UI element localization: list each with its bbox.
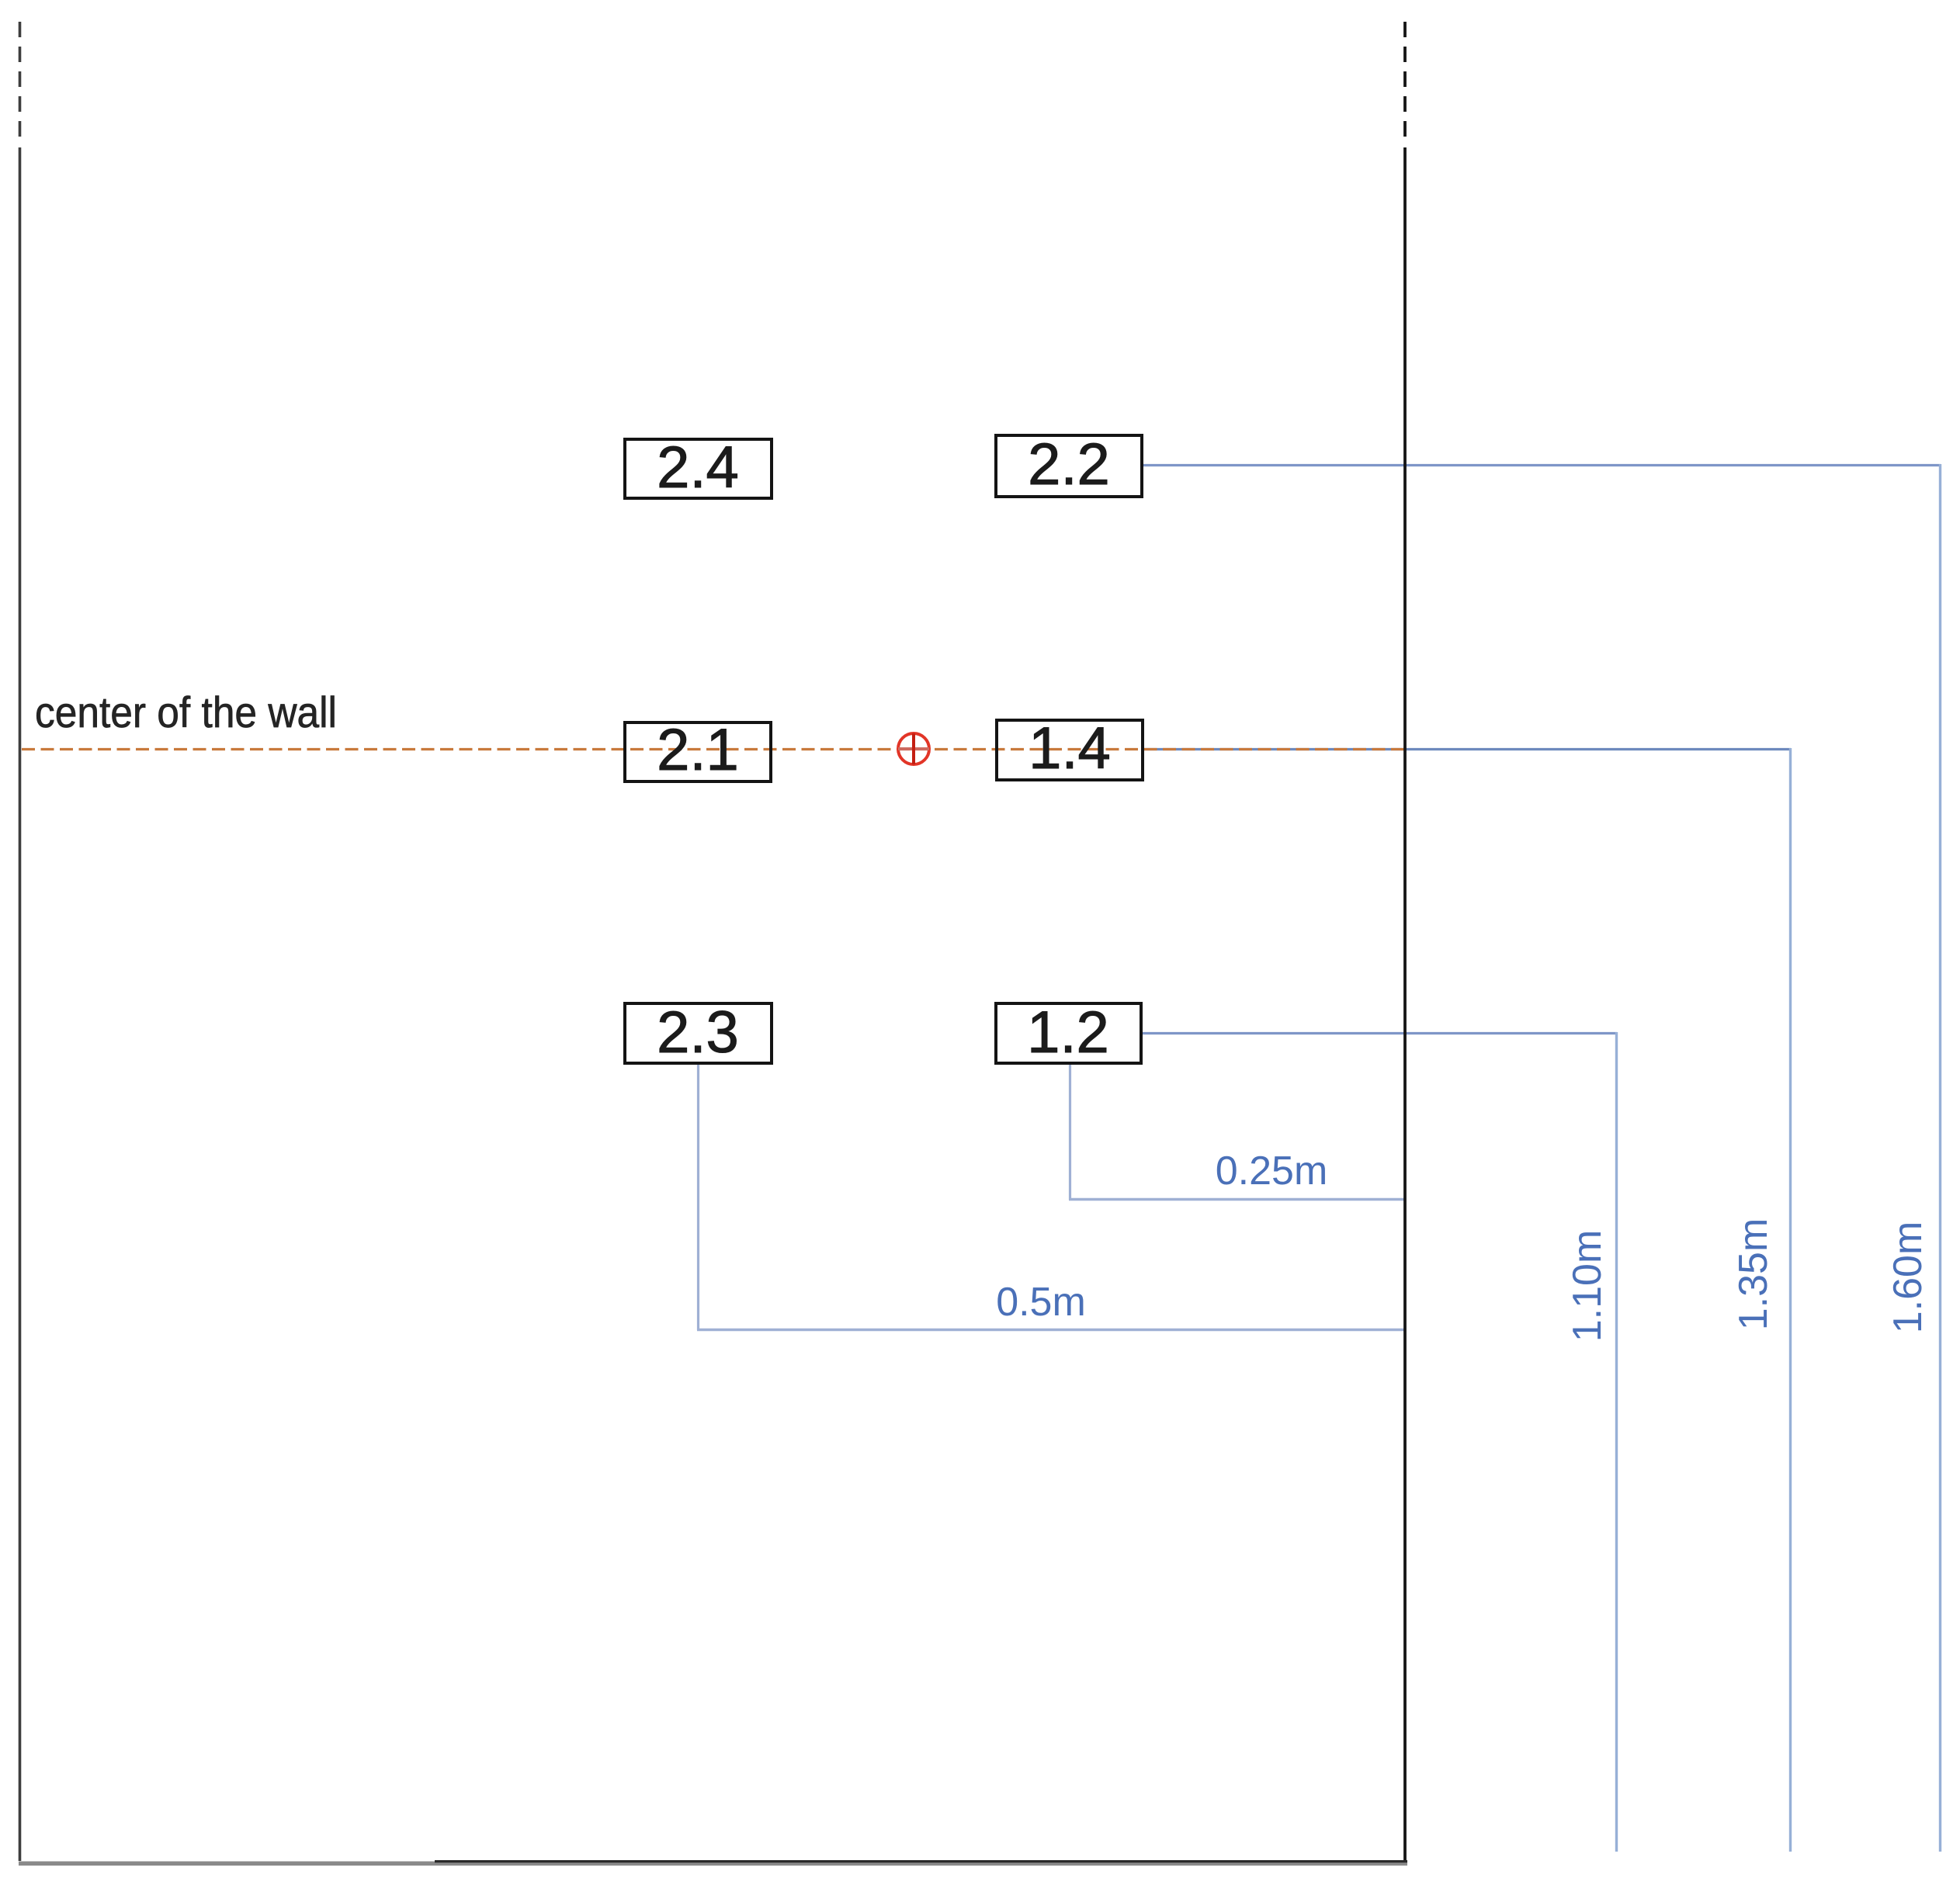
wire dimension line from 1.2 going right bbox=[1141, 1032, 1617, 1034]
node box 2.2 bbox=[996, 431, 1142, 497]
node box 2.4 bbox=[625, 435, 772, 501]
center line (orange dashed) bbox=[22, 748, 1405, 750]
svg-text:1.10m: 1.10m bbox=[1565, 1230, 1610, 1343]
wire 0.5m horizontal bbox=[697, 1329, 1406, 1331]
wire 0.25m horizontal bbox=[1069, 1198, 1406, 1201]
wire 1.60m vertical bbox=[1939, 464, 1941, 1852]
wire 0.5m: drop from 2.3 box bbox=[697, 1063, 699, 1330]
wire 0.25m: drop from 1.2 box bbox=[1069, 1063, 1071, 1200]
svg-text:0.5m: 0.5m bbox=[996, 1280, 1086, 1325]
svg-text:center of the wall: center of the wall bbox=[35, 688, 337, 736]
svg-text:2.3: 2.3 bbox=[657, 1000, 739, 1065]
svg-text:2.1: 2.1 bbox=[657, 717, 739, 783]
node box 2.3 bbox=[625, 1000, 772, 1065]
wall right edge dashed top bbox=[1403, 22, 1407, 142]
wall right edge solid bbox=[1403, 147, 1407, 1862]
svg-text:0.25m: 0.25m bbox=[1216, 1149, 1328, 1194]
wall bottom gray band bbox=[19, 1862, 1407, 1866]
wall left edge dashed top bbox=[19, 22, 22, 142]
wire dimension line from 1.4 to 1.35m vertical (blue under dashes) bbox=[1143, 748, 1791, 750]
node box 2.1 bbox=[625, 717, 771, 783]
node center target crosshair bbox=[898, 733, 929, 764]
svg-text:1.2: 1.2 bbox=[1027, 1000, 1109, 1065]
wire 1.10m vertical bbox=[1615, 1032, 1618, 1852]
wire dimension line from 2.2 going right bbox=[1142, 464, 1941, 466]
node box 1.2 bbox=[996, 1000, 1141, 1065]
svg-text:1.4: 1.4 bbox=[1029, 716, 1111, 781]
wall bottom dark top edge bbox=[435, 1860, 1407, 1862]
svg-text:1.60m: 1.60m bbox=[1885, 1221, 1931, 1334]
wall left edge solid bbox=[19, 147, 22, 1861]
svg-text:2.4: 2.4 bbox=[657, 435, 739, 501]
node box 1.4 bbox=[997, 716, 1143, 781]
wire 1.35m vertical bbox=[1789, 748, 1792, 1852]
svg-text:1.35m: 1.35m bbox=[1731, 1218, 1776, 1331]
svg-text:2.2: 2.2 bbox=[1028, 431, 1110, 497]
